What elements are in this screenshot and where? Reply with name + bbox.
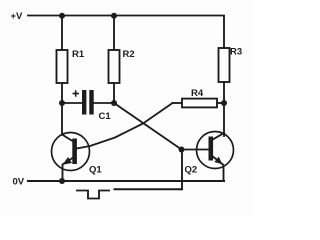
svg-text:R3: R3 (230, 47, 242, 58)
svg-text:C1: C1 (99, 111, 112, 122)
svg-text:+V: +V (11, 11, 24, 22)
svg-text:0V: 0V (13, 176, 25, 187)
svg-text:R4: R4 (191, 88, 204, 99)
svg-text:Q2: Q2 (185, 165, 198, 176)
svg-text:Q1: Q1 (89, 165, 102, 176)
svg-text:R1: R1 (72, 49, 85, 60)
svg-text:R2: R2 (123, 49, 135, 60)
